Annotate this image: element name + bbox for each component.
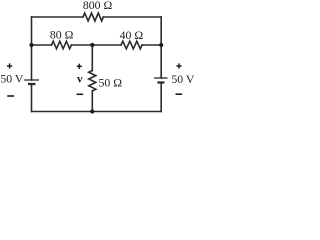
- wire middle-right segment: [142, 44, 161, 46]
- battery V1 long plate: [24, 79, 39, 81]
- wire center branch lower: [91, 91, 93, 112]
- svg-text:v: v: [77, 74, 83, 86]
- svg-text:80 Ω: 80 Ω: [50, 27, 74, 41]
- svg-text:50 V: 50 V: [0, 72, 24, 86]
- wire top-left segment: [32, 16, 84, 18]
- wire bottom: [32, 111, 162, 113]
- resistor R_40 zigzag: [121, 41, 142, 49]
- battery V2 short plate: [157, 81, 164, 83]
- node dot center-bottom: [90, 109, 94, 113]
- resistor R_80 zigzag: [52, 41, 72, 49]
- node dot right-middle: [159, 43, 163, 47]
- battery V2 long plate: [154, 77, 168, 79]
- node dot left-middle: [29, 43, 33, 47]
- wire right vertical upper: [160, 17, 162, 78]
- label left plus: [7, 63, 12, 68]
- resistor R_800 zigzag: [83, 13, 103, 21]
- wire center branch upper: [91, 45, 93, 71]
- svg-text:40 Ω: 40 Ω: [120, 28, 144, 42]
- wire middle-left segment: [32, 44, 52, 46]
- wire left vertical upper: [31, 17, 33, 80]
- wire middle-center segment: [71, 44, 121, 46]
- label right plus: [176, 63, 181, 68]
- wire left vertical lower: [31, 84, 33, 112]
- label left minus: [7, 95, 14, 97]
- svg-text:800 Ω: 800 Ω: [83, 0, 113, 12]
- resistor R_50 vertical zigzag: [89, 71, 96, 91]
- wire right vertical lower: [160, 83, 162, 112]
- label center minus: [77, 94, 84, 96]
- battery V1 short plate: [28, 83, 36, 85]
- node dot center-middle: [90, 43, 94, 47]
- label center plus: [77, 64, 82, 69]
- label right minus: [176, 93, 183, 95]
- wire top-right segment: [103, 16, 161, 18]
- svg-text:50 Ω: 50 Ω: [99, 76, 123, 90]
- svg-text:50 V: 50 V: [171, 72, 195, 86]
